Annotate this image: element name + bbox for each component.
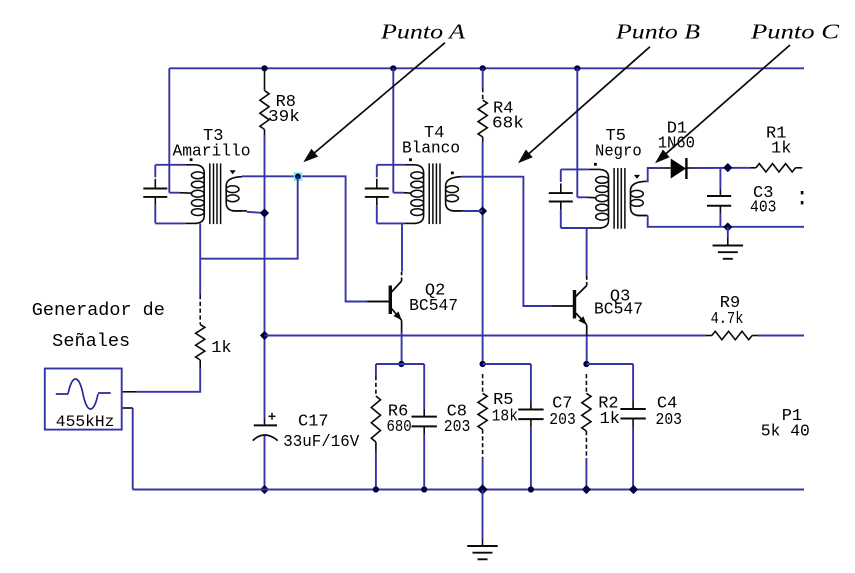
svg-text:33uF/16V: 33uF/16V (283, 433, 360, 452)
wire generator output to 1k (123, 368, 201, 392)
svg-text:Negro: Negro (595, 142, 642, 161)
svg-text:203: 203 (444, 418, 471, 437)
wire top Vcc rail (169, 67, 804, 69)
svg-text:203: 203 (656, 411, 683, 430)
node R5 top junction (480, 361, 486, 367)
wire T3 primary bottom stub (199, 223, 201, 258)
arrow punto B pointer (518, 47, 650, 164)
resistor R4 (478, 68, 524, 142)
svg-text:4.7k: 4.7k (711, 310, 744, 329)
text Punto C (750, 20, 841, 44)
node R6 ground junction (373, 486, 379, 492)
diode D1 1N60 (658, 120, 695, 179)
arrow punto C pointer (655, 45, 790, 163)
node C7 ground junction (528, 486, 534, 492)
svg-text:Blanco: Blanco (402, 139, 460, 158)
resistor 1k (generator series) (196, 259, 232, 368)
node R2 ground junction (582, 485, 591, 494)
resistor R9 (706, 294, 758, 340)
wire R2/C4 top bar (586, 363, 633, 365)
text potentiometer P1 label (761, 407, 810, 441)
svg-text:403: 403 (750, 199, 777, 218)
capacitor C17 electrolytic (253, 412, 360, 451)
svg-text:203: 203 (549, 411, 576, 430)
resistor R1 (751, 125, 803, 172)
node Vcc/R8 junction (261, 65, 267, 71)
svg-text:Señales: Señales (52, 332, 130, 352)
node detector top junction (723, 163, 732, 172)
svg-text:Amarillo: Amarillo (173, 142, 251, 161)
transformer T4 (365, 124, 462, 224)
wire T4 secondary top to punto B / Q3 base (461, 177, 552, 306)
svg-text:BC547: BC547 (594, 301, 643, 320)
svg-text:68k: 68k (492, 115, 524, 134)
transformer T5 (549, 127, 647, 229)
arrow punto A pointer (303, 43, 445, 163)
node bias rail start junction (260, 331, 269, 340)
wire bias rail right end (758, 335, 804, 337)
wire R8 column down to bias rail and C17 (264, 135, 266, 490)
svg-text:1k: 1k (211, 339, 231, 358)
node Q2 emitter junction (398, 361, 404, 367)
node main ground junction (477, 484, 487, 494)
svg-text:BC547: BC547 (409, 297, 458, 316)
wire Q2 emitter down to R6/C8 (401, 332, 403, 365)
svg-text:Generador de: Generador de (32, 301, 165, 321)
resistor R2 (582, 374, 620, 490)
capacitor C7 (518, 364, 576, 490)
node Vcc/R4 junction (480, 65, 486, 71)
node Vcc/T4 junction (390, 65, 396, 71)
svg-text:455kHz: 455kHz (56, 413, 115, 431)
text generator caption (32, 301, 165, 352)
wire T4 tap from rail (392, 68, 394, 192)
wire T5 secondary top to diode (646, 168, 670, 181)
wire bias rail (base bias / R9 line) (265, 335, 707, 337)
svg-text:Punto A: Punto A (380, 20, 465, 44)
wire R4 down through T4 secondary junction to R5 (482, 142, 484, 364)
wire Q2 base lead (367, 301, 389, 303)
svg-text:1k: 1k (600, 410, 620, 429)
node C4 ground junction (629, 485, 638, 494)
transformer T3 (143, 127, 250, 224)
wire Q3 emitter down to R2/C4 (586, 336, 588, 364)
svg-text:1k: 1k (771, 140, 791, 159)
svg-text:C17: C17 (298, 412, 329, 431)
wire diode to C3/R1 (694, 167, 750, 169)
node C17 ground junction (260, 485, 269, 494)
resistor R8 (260, 68, 300, 135)
node C8 ground junction (421, 486, 427, 492)
svg-text:18k: 18k (492, 408, 518, 427)
wire T4 primary bottom to Q2 collector (401, 223, 403, 271)
wire T5 tap from rail (576, 68, 578, 197)
svg-text:680: 680 (387, 418, 412, 437)
wire bottom ground rail (133, 489, 804, 491)
node Q3 emitter junction (583, 361, 589, 367)
text Punto B (615, 20, 700, 44)
wire punto A down to 1k / T3 primary bottom (200, 176, 298, 258)
wire T5 primary bottom to Q3 collector (586, 228, 588, 277)
text Punto A (380, 20, 465, 44)
resistor R5 (478, 374, 518, 490)
svg-text:5k 40: 5k 40 (761, 422, 810, 441)
wire generator ground side (123, 408, 133, 490)
wire T3 secondary top to punto A and Q2 base (242, 176, 367, 301)
svg-text:Punto C: Punto C (750, 20, 841, 44)
wire R5/C7 top bar (483, 363, 531, 365)
capacitor C8 (412, 364, 471, 490)
wire T3 Vcc tap drop (168, 68, 170, 192)
transistor Q3 (553, 276, 644, 336)
resistor R6 (371, 364, 411, 490)
node T4 secondary bottom junction (478, 206, 487, 215)
node Vcc/T5 junction (574, 65, 580, 71)
ground detector (713, 227, 744, 259)
capacitor C4 (620, 364, 682, 490)
capacitor C3 (707, 168, 777, 227)
signal generator box (45, 369, 122, 432)
svg-text:Punto B: Punto B (615, 20, 700, 44)
wire R6/C8 top bar (376, 363, 424, 365)
wire T4 secondary bottom lead (452, 210, 483, 212)
ground main (467, 490, 498, 560)
wire T3 secondary bottom to R8 column (232, 211, 264, 213)
text cropped colon marks (801, 191, 804, 204)
transistor Q2 (368, 272, 458, 332)
node T3 secondary bottom junction (260, 208, 269, 217)
wire T5 secondary bottom / detector bottom line (637, 216, 805, 227)
node detector bottom junction (723, 222, 732, 231)
svg-text:39k: 39k (268, 108, 300, 127)
node Punto A (highlighted) (294, 172, 303, 181)
